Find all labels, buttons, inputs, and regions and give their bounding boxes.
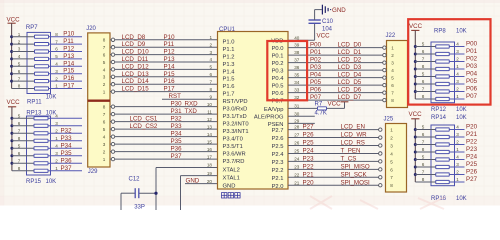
resistor pack RP13	[12, 116, 51, 175]
svg-text:J29: J29	[88, 169, 98, 175]
net label SPI_MISO	[341, 163, 370, 170]
svg-text:3: 3	[209, 50, 212, 55]
svg-text:T_CS: T_CS	[341, 155, 357, 162]
wire net P15 stub	[51, 73, 83, 75]
wire RP13 stub	[51, 140, 83, 142]
net label P01	[310, 49, 322, 56]
svg-text:VCC: VCC	[409, 23, 423, 30]
net label LCD_D11	[122, 56, 149, 63]
svg-text:16: 16	[207, 147, 213, 152]
svg-text:P2.2: P2.2	[272, 168, 284, 174]
wire LCD data row	[115, 46, 218, 48]
svg-text:7: 7	[422, 170, 425, 175]
svg-text:P25: P25	[303, 140, 315, 147]
net label P06	[310, 87, 322, 94]
svg-text:4: 4	[390, 151, 393, 156]
net label LCD_D1	[338, 49, 362, 56]
svg-text:4: 4	[55, 62, 58, 67]
net label LCD_D15	[122, 86, 150, 93]
net label LCD_D9	[122, 41, 146, 48]
net label P05 (RP8)	[466, 78, 478, 85]
op CPU1 designator	[219, 27, 236, 33]
svg-text:P01: P01	[310, 49, 322, 56]
RP14 designator and value	[431, 115, 467, 121]
net label P35	[171, 138, 183, 145]
wire P24 row	[288, 152, 379, 154]
svg-text:11: 11	[207, 109, 212, 114]
svg-text:P37: P37	[171, 153, 183, 160]
svg-text:25: 25	[294, 149, 300, 154]
net label P16 (bus)	[164, 78, 176, 85]
svg-text:6: 6	[55, 47, 58, 52]
svg-text:34: 34	[294, 80, 300, 85]
svg-text:P31: P31	[171, 108, 183, 115]
svg-text:7: 7	[391, 91, 394, 96]
svg-text:P30: P30	[171, 101, 183, 108]
svg-text:7: 7	[422, 140, 425, 145]
wire net P10 stub	[51, 36, 83, 38]
svg-text:7: 7	[209, 79, 212, 84]
svg-text:2: 2	[55, 76, 58, 81]
svg-text:7: 7	[422, 57, 425, 62]
svg-text:7: 7	[422, 87, 425, 92]
svg-text:P1.7: P1.7	[223, 92, 235, 98]
J20 designator	[86, 26, 96, 32]
wire P06 row	[288, 92, 383, 94]
svg-text:LCD_EN: LCD_EN	[341, 124, 365, 131]
svg-text:P1.1: P1.1	[223, 47, 235, 53]
svg-text:VCC: VCC	[328, 101, 342, 108]
svg-text:3: 3	[456, 79, 459, 84]
svg-text:12: 12	[207, 117, 213, 122]
svg-text:2: 2	[456, 57, 459, 62]
svg-text:7: 7	[103, 45, 106, 50]
svg-text:GND: GND	[332, 7, 346, 14]
svg-text:8: 8	[390, 183, 393, 188]
svg-text:8: 8	[103, 105, 106, 110]
net label P23	[303, 155, 315, 162]
R7 value 4.7K	[315, 110, 327, 116]
wire P21 row	[288, 176, 379, 178]
net label P26 (RP14)	[466, 169, 478, 176]
svg-text:P23: P23	[303, 155, 315, 162]
net label P27 (RP14)	[466, 176, 478, 183]
svg-text:P24: P24	[466, 154, 478, 161]
svg-text:2: 2	[103, 82, 106, 87]
net label P22 (RP14)	[466, 139, 478, 146]
svg-text:2: 2	[456, 170, 459, 175]
svg-text:SPI_SCK: SPI_SCK	[341, 171, 368, 178]
net label RST	[169, 93, 182, 100]
C12 designator	[129, 176, 141, 182]
net label T_CS	[341, 155, 357, 162]
svg-text:P2.3: P2.3	[272, 160, 284, 166]
net label P33	[61, 135, 73, 142]
net label P04 (RP8)	[466, 71, 478, 78]
wire RP8 stub	[455, 76, 465, 78]
svg-text:P13: P13	[63, 53, 75, 60]
svg-text:P20: P20	[466, 124, 478, 131]
svg-text:1: 1	[103, 90, 106, 95]
svg-text:R7: R7	[315, 102, 323, 108]
svg-text:36: 36	[294, 65, 300, 70]
svg-text:LCD_CS1: LCD_CS1	[130, 116, 158, 123]
svg-text:5: 5	[422, 72, 425, 77]
svg-text:LCD_D9: LCD_D9	[122, 41, 146, 48]
svg-text:P14: P14	[164, 63, 176, 70]
net label P37	[171, 153, 183, 160]
net label P20 (RP14)	[466, 124, 478, 131]
svg-text:P1.3: P1.3	[223, 62, 235, 68]
svg-text:1: 1	[55, 166, 58, 171]
wire LCD data row	[115, 54, 218, 56]
wire LCD data row	[115, 61, 218, 63]
svg-text:P17: P17	[63, 83, 75, 90]
net label LCD_RS	[341, 140, 365, 147]
net label P25	[303, 140, 315, 147]
svg-text:RP8: RP8	[434, 28, 446, 34]
wire VCC bus to RP14	[414, 128, 417, 182]
svg-text:P2.1: P2.1	[272, 176, 284, 182]
svg-text:VCC: VCC	[7, 99, 21, 106]
svg-text:3: 3	[390, 143, 393, 148]
wire P27 row	[288, 129, 379, 131]
net label P05	[310, 79, 322, 86]
svg-text:P04: P04	[310, 72, 322, 79]
net label P07 (RP8)	[466, 93, 478, 100]
net label P35	[61, 150, 73, 157]
svg-text:P3.5/T1: P3.5/T1	[223, 144, 243, 150]
svg-text:1: 1	[456, 147, 459, 152]
svg-text:9: 9	[209, 94, 212, 99]
net label P13 (bus)	[164, 56, 176, 63]
wire P25 row	[288, 145, 379, 147]
wire RP14 stub	[455, 166, 465, 168]
svg-text:7: 7	[18, 129, 21, 134]
net label P12 (bus)	[164, 49, 176, 56]
svg-text:1: 1	[55, 84, 58, 89]
net label P16	[63, 75, 75, 82]
svg-text:4: 4	[209, 57, 212, 62]
wire RP8 stub	[455, 91, 465, 93]
wire RP14 stub	[455, 129, 465, 131]
wire XTAL1	[181, 176, 218, 210]
net label LCD_D8	[122, 34, 146, 41]
svg-text:RP11: RP11	[27, 100, 42, 106]
svg-text:4: 4	[456, 42, 459, 47]
svg-text:2: 2	[456, 140, 459, 145]
svg-text:1: 1	[456, 94, 459, 99]
svg-text:T_PEN: T_PEN	[341, 147, 361, 154]
wire VCC bus to RP7	[10, 35, 13, 88]
wire LCD data row	[115, 39, 218, 41]
wire RP8 stub	[455, 46, 465, 48]
power flag VCC (RP7 pull-ups)	[7, 16, 21, 36]
svg-text:P15: P15	[63, 68, 75, 75]
wire RP8 stub	[455, 61, 465, 63]
svg-text:P37: P37	[61, 165, 73, 172]
svg-text:P17: P17	[164, 86, 176, 93]
svg-text:P1.2: P1.2	[223, 55, 235, 61]
RP8 pin numbers right	[456, 42, 459, 99]
svg-text:LCD_CS2: LCD_CS2	[130, 123, 158, 130]
svg-text:5: 5	[390, 159, 393, 164]
J25 pin numbers 1-8	[390, 128, 393, 189]
svg-text:P32: P32	[61, 127, 73, 134]
svg-text:P10: P10	[164, 34, 176, 41]
svg-text:LCD_WR: LCD_WR	[341, 132, 368, 139]
wire P03 row	[288, 69, 383, 71]
net label P21	[303, 171, 315, 178]
highlight box around RP8	[408, 19, 490, 104]
svg-text:1: 1	[55, 136, 58, 141]
svg-text:VCC: VCC	[409, 111, 423, 118]
svg-text:P05: P05	[466, 78, 478, 85]
RP7 value 10K	[46, 95, 57, 101]
resistor pack RP7	[12, 32, 51, 93]
svg-text:24: 24	[294, 157, 300, 162]
svg-text:RP12: RP12	[431, 107, 447, 113]
svg-text:2: 2	[209, 42, 212, 47]
wire VCC bus to RP13	[10, 117, 13, 171]
net label P11	[63, 38, 74, 45]
svg-text:5: 5	[18, 114, 21, 119]
wire LCD data row	[115, 76, 218, 78]
svg-text:6: 6	[18, 151, 21, 156]
svg-text:4: 4	[55, 144, 58, 149]
net label SPI_SCK	[341, 171, 368, 178]
svg-text:P13: P13	[164, 56, 176, 63]
svg-text:29: 29	[294, 119, 300, 124]
svg-text:P21: P21	[466, 131, 478, 138]
svg-text:3: 3	[391, 61, 394, 66]
power flag VCC (RP13 pull-ups)	[7, 99, 21, 119]
net label P15	[63, 68, 75, 75]
svg-text:P34: P34	[171, 131, 183, 138]
svg-text:P02: P02	[310, 57, 322, 64]
svg-text:28: 28	[294, 125, 300, 130]
net label P30 RXD	[171, 101, 199, 108]
J22 pin numbers 1-8	[391, 46, 394, 104]
svg-text:P2.6: P2.6	[272, 136, 284, 142]
svg-text:LCD_D5: LCD_D5	[338, 79, 362, 86]
svg-text:6: 6	[422, 162, 425, 167]
capacitor C12	[121, 188, 158, 210]
svg-text:SPI_MOSI: SPI_MOSI	[341, 179, 371, 186]
svg-text:10K: 10K	[46, 179, 57, 185]
svg-text:P12: P12	[164, 49, 176, 56]
svg-text:GND: GND	[186, 178, 200, 185]
svg-text:5: 5	[422, 125, 425, 130]
svg-text:33: 33	[294, 88, 300, 93]
wire P3 row	[115, 128, 218, 130]
RP7 pin numbers right 8-1	[55, 32, 58, 89]
svg-text:3: 3	[55, 151, 58, 156]
svg-text:RP7: RP7	[26, 25, 38, 31]
wire RP14 stub	[455, 144, 465, 146]
svg-text:RXD: RXD	[185, 101, 199, 108]
wire ALE stub	[288, 115, 315, 117]
net label LCD_D12	[122, 63, 150, 70]
svg-text:P07: P07	[466, 93, 478, 100]
svg-text:1: 1	[209, 35, 212, 40]
svg-text:10K: 10K	[456, 196, 467, 202]
svg-text:4: 4	[391, 68, 394, 73]
net label P24	[303, 147, 315, 154]
svg-text:RST: RST	[169, 93, 182, 100]
svg-text:104: 104	[322, 26, 333, 32]
svg-text:5: 5	[103, 127, 106, 132]
net label SPI_MOSI	[341, 179, 371, 186]
svg-text:LCD_D15: LCD_D15	[122, 86, 150, 93]
net label P37	[61, 165, 73, 172]
svg-text:LCD_D12: LCD_D12	[122, 63, 150, 70]
svg-text:J25: J25	[384, 116, 394, 122]
wire RP13 stub	[51, 117, 83, 119]
net label P20	[303, 179, 315, 186]
wire P3 row	[115, 158, 218, 160]
wire RST	[162, 98, 218, 100]
svg-text:5: 5	[18, 144, 21, 149]
wire P01 row	[288, 54, 383, 56]
svg-text:P26: P26	[466, 169, 478, 176]
J22 designator	[386, 33, 396, 39]
svg-text:P3.4/T0: P3.4/T0	[223, 137, 243, 143]
svg-text:P00: P00	[310, 42, 322, 49]
svg-text:LCD_D8: LCD_D8	[122, 34, 146, 41]
svg-text:P06: P06	[466, 86, 478, 93]
net label P15 (bus)	[164, 71, 176, 78]
microcontroller U CPU1 body	[218, 32, 289, 190]
svg-text:10K: 10K	[456, 115, 467, 121]
svg-text:7: 7	[18, 76, 21, 81]
svg-text:8: 8	[18, 84, 21, 89]
svg-text:2: 2	[390, 135, 393, 140]
net label P02	[310, 57, 322, 64]
svg-text:7: 7	[55, 39, 58, 44]
svg-text:6: 6	[422, 49, 425, 54]
capacitor C10	[309, 10, 321, 24]
power flag VCC (RP8)	[409, 23, 423, 46]
wire net P11 stub	[51, 43, 83, 45]
connector J22 body	[387, 41, 408, 108]
net label P14	[63, 60, 75, 67]
svg-text:P00: P00	[466, 41, 478, 48]
svg-text:3: 3	[456, 162, 459, 167]
J22 pins	[383, 46, 386, 102]
svg-text:P12: P12	[63, 46, 75, 53]
svg-text:18: 18	[207, 163, 213, 168]
svg-text:27: 27	[294, 133, 300, 138]
svg-text:P3.0/RxD: P3.0/RxD	[223, 107, 248, 113]
net label P02 (RP8)	[466, 56, 478, 63]
svg-text:3: 3	[456, 132, 459, 137]
svg-text:8: 8	[103, 38, 106, 43]
svg-text:P02: P02	[466, 56, 478, 63]
svg-text:P36: P36	[171, 146, 183, 153]
wire GND net	[185, 183, 218, 185]
C10 designator	[322, 19, 334, 25]
svg-text:5: 5	[55, 54, 58, 59]
svg-text:P0.0: P0.0	[272, 46, 284, 52]
J29 designator	[88, 169, 98, 175]
svg-text:6: 6	[422, 132, 425, 137]
net label P03 (RP8)	[466, 63, 478, 70]
wire VDD to VCC	[288, 23, 315, 40]
svg-text:LCD_D13: LCD_D13	[122, 71, 150, 78]
svg-text:LCD_D14: LCD_D14	[122, 78, 150, 85]
net label P22	[303, 163, 315, 170]
svg-text:LCD_D4: LCD_D4	[338, 72, 362, 79]
svg-text:6: 6	[103, 53, 106, 58]
resistor pack RP14	[415, 125, 454, 186]
svg-text:RP14: RP14	[431, 115, 447, 121]
wire P22 row	[288, 168, 379, 170]
svg-text:13: 13	[207, 124, 213, 129]
svg-text:GND: GND	[223, 184, 236, 190]
svg-text:LCD_D2: LCD_D2	[338, 57, 362, 64]
resistor R7 4.7K	[318, 107, 327, 110]
wire RP14 stub	[455, 174, 465, 176]
RP14 pin numbers left	[422, 125, 425, 183]
svg-text:P07: P07	[310, 94, 322, 101]
svg-text:P11: P11	[164, 41, 175, 48]
net label LCD_CS1 P32	[130, 116, 183, 123]
svg-text:21: 21	[294, 180, 300, 185]
svg-text:C10: C10	[322, 19, 334, 25]
power flag VCC (RP14)	[409, 111, 423, 130]
svg-text:P16: P16	[63, 75, 75, 82]
svg-text:10K: 10K	[46, 95, 57, 101]
svg-text:23: 23	[294, 164, 300, 169]
net label P17	[63, 83, 75, 90]
wire RP8 stub	[455, 83, 465, 85]
net label P11 (bus)	[164, 41, 175, 48]
wire RP14 stub	[455, 159, 465, 161]
net label P12	[63, 46, 75, 53]
svg-text:P1.0: P1.0	[223, 40, 235, 46]
svg-text:2: 2	[456, 87, 459, 92]
wire P04 row	[288, 77, 383, 79]
connector J25 body	[386, 124, 407, 193]
svg-text:P0.3: P0.3	[272, 69, 284, 75]
wire RP14 stub	[455, 181, 465, 183]
svg-text:RP15: RP15	[26, 179, 42, 185]
svg-text:VCC: VCC	[7, 16, 21, 23]
svg-text:1: 1	[390, 128, 393, 133]
net label P25 (RP14)	[466, 161, 478, 168]
svg-text:6: 6	[209, 72, 212, 77]
RP16 designator and value	[431, 196, 467, 202]
svg-text:15: 15	[207, 139, 213, 144]
wire LCD data row	[115, 91, 218, 93]
RP7 pin numbers left 1-8	[18, 32, 21, 89]
svg-text:P05: P05	[310, 79, 322, 86]
svg-text:39: 39	[294, 43, 300, 48]
highlight box around P0 port pins	[267, 41, 307, 100]
svg-text:1: 1	[18, 32, 21, 37]
svg-text:ALE/PROG: ALE/PROG	[254, 115, 284, 121]
RP8 pin numbers left	[422, 42, 425, 99]
svg-text:P0.2: P0.2	[272, 61, 284, 67]
RP11 designator	[27, 100, 42, 106]
svg-text:17: 17	[207, 154, 213, 159]
svg-text:6: 6	[103, 120, 106, 125]
svg-text:5: 5	[209, 65, 212, 70]
svg-text:LCD_D0: LCD_D0	[338, 42, 362, 49]
wire net P17 stub	[51, 88, 83, 90]
svg-text:8: 8	[18, 136, 21, 141]
